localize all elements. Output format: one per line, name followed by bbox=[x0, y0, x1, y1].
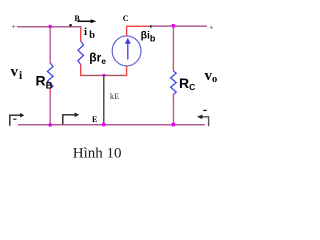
svg-text:+: + bbox=[12, 23, 16, 31]
wire: RC bottom bbox=[173, 100, 175, 124]
junction node E top bbox=[103, 74, 106, 77]
resistor RC bbox=[171, 71, 177, 94]
wire: RC vertical top bbox=[172, 26, 174, 60]
svg-text:Hình 10: Hình 10 bbox=[73, 146, 122, 162]
wire red lead into beta-re bbox=[80, 29, 82, 42]
wire: RB vertical branch bbox=[49, 27, 51, 61]
wire: emitter down line bbox=[103, 76, 105, 125]
svg-text:+: + bbox=[209, 23, 213, 31]
current source U1 circle bbox=[112, 36, 141, 66]
current source arrow bbox=[127, 44, 129, 60]
svg-text:kE: kE bbox=[110, 91, 119, 101]
wire red collector lead bbox=[127, 26, 151, 36]
svg-text:E: E bbox=[92, 115, 97, 124]
minus sign bottom-right bbox=[203, 109, 207, 111]
wire: bottom ground rail bbox=[18, 124, 205, 126]
wire: emitter connector beta-re to source bbox=[84, 74, 124, 76]
wire red lead below RB bbox=[49, 89, 51, 93]
svg-text:C: C bbox=[123, 14, 129, 23]
junction at RC top bbox=[171, 24, 175, 28]
junction RB bottom bbox=[48, 123, 52, 127]
wire red lead below current source bbox=[124, 66, 127, 76]
terminal arrow bottom-right bbox=[202, 117, 209, 126]
junction E bottom bbox=[102, 123, 106, 127]
resistor beta-re bbox=[78, 41, 84, 65]
node junction at RB top bbox=[48, 25, 52, 29]
resistor RB bbox=[47, 63, 53, 89]
terminal arrow bottom-left bbox=[10, 115, 21, 126]
junction RC bottom bbox=[171, 123, 175, 127]
wire red lead below RC bbox=[172, 94, 174, 100]
node C dot bbox=[150, 25, 153, 28]
arrow ib at node B bbox=[78, 20, 92, 22]
wire: top output rail bbox=[151, 25, 207, 27]
node B dot bbox=[69, 24, 72, 27]
svg-text:B: B bbox=[74, 14, 80, 23]
minus sign bottom-left bbox=[13, 118, 16, 120]
wire red lead above RB bbox=[49, 61, 51, 63]
wire: top input rail B bbox=[17, 27, 81, 30]
wire red lead above RC bbox=[172, 60, 174, 71]
wire red lead below beta-re bbox=[81, 65, 84, 76]
arrow ie at node E bbox=[63, 115, 75, 125]
wire: RB bottom to ground rail bbox=[49, 93, 51, 125]
